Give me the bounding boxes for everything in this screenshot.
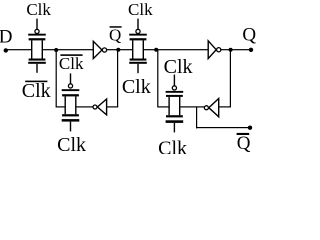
wire Q-bar output tap bbox=[196, 107, 250, 128]
D input terminal dot bbox=[4, 48, 8, 52]
inverter U2 bbox=[93, 99, 107, 115]
svg-text:Clk: Clk bbox=[128, 0, 153, 19]
label Clk (TG4 top) bbox=[164, 56, 193, 78]
svg-text:Clk: Clk bbox=[122, 76, 151, 98]
label Clk (TG4 bottom) bbox=[158, 137, 187, 159]
inverter U4 bbox=[204, 99, 218, 117]
label Clk (TG1 top) bbox=[26, 0, 51, 19]
wire U1 to TG3 bbox=[106, 49, 132, 50]
node C junction bbox=[154, 48, 158, 52]
wire TG3 to inverter U3 bbox=[144, 49, 209, 50]
svg-text:Q: Q bbox=[237, 133, 251, 154]
label Q-bar node bbox=[109, 25, 122, 44]
transmission gate TG1 bbox=[28, 19, 46, 73]
svg-text:Clk: Clk bbox=[57, 134, 86, 154]
Q-bar output terminal dot bbox=[248, 126, 252, 130]
label Clk (TG2 bottom) bbox=[57, 134, 86, 156]
Q output terminal dot bbox=[249, 48, 253, 52]
label Clk-bar (TG2 top) bbox=[59, 54, 84, 73]
wire node A down to TG2 bbox=[56, 50, 65, 108]
svg-text:Clk: Clk bbox=[22, 80, 51, 102]
svg-text:Clk: Clk bbox=[59, 54, 84, 73]
wire TG1 to inverter U1 bbox=[42, 49, 94, 50]
svg-text:Q: Q bbox=[242, 24, 256, 45]
svg-text:Clk: Clk bbox=[164, 56, 193, 78]
label Q-bar output bbox=[237, 133, 251, 154]
node A junction bbox=[54, 48, 58, 52]
wire node C down to TG4 bbox=[157, 50, 169, 108]
svg-text:Clk: Clk bbox=[26, 0, 51, 19]
svg-text:Clk: Clk bbox=[158, 137, 187, 154]
node Q-bar (master) junction bbox=[116, 48, 120, 52]
wire U2 input up to Q-bar node bbox=[107, 50, 119, 108]
svg-text:D: D bbox=[0, 27, 12, 48]
label D input bbox=[0, 27, 12, 48]
node Q junction bbox=[229, 48, 233, 52]
wire TG2 to inverter U2 bbox=[76, 106, 93, 107]
transmission gate TG2 bbox=[62, 73, 80, 131]
label Q output bbox=[242, 24, 256, 45]
wire D to TG1 bbox=[6, 49, 32, 50]
svg-text:Q: Q bbox=[109, 25, 121, 44]
label Clk (TG3 bottom) bbox=[122, 76, 151, 98]
inverter U1 bbox=[93, 41, 106, 58]
transmission gate TG3 bbox=[129, 19, 147, 74]
label Clk-bar (TG1 bottom) bbox=[22, 80, 51, 102]
label Clk (TG3 top) bbox=[128, 0, 153, 19]
wire U3 to Q terminal bbox=[221, 49, 251, 50]
inverter U3 bbox=[208, 41, 221, 59]
transmission gate TG4 bbox=[166, 75, 184, 133]
wire U4 input up to node Q bbox=[219, 50, 231, 108]
wire TG4 to inverter U4 bbox=[180, 106, 205, 107]
